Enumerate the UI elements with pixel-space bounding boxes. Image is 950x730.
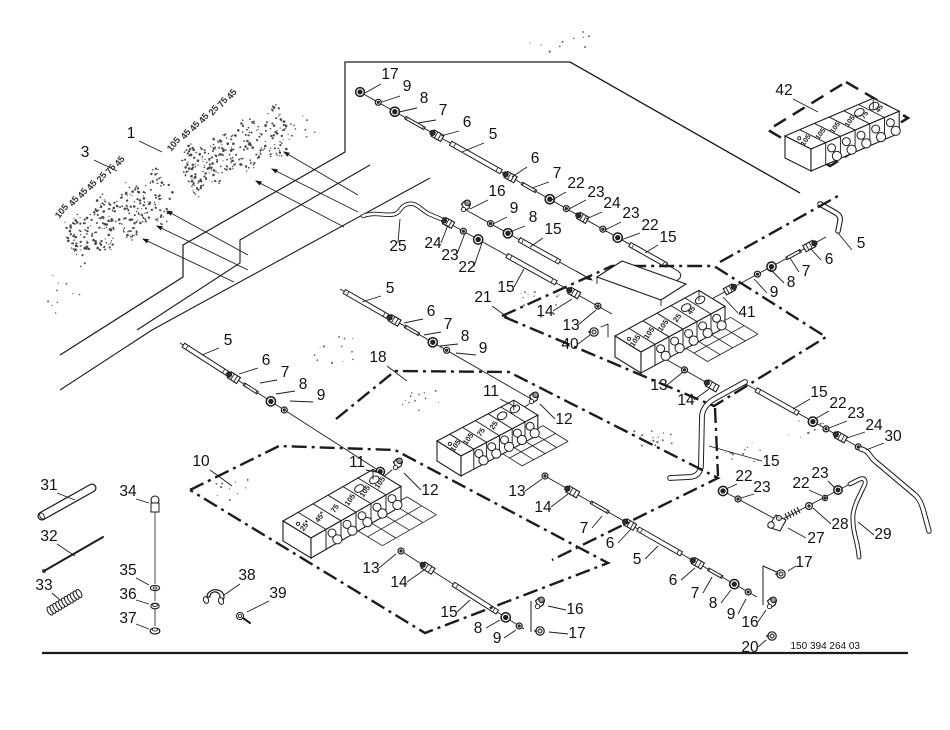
svg-text:24: 24: [603, 195, 621, 212]
svg-text:6: 6: [825, 251, 834, 268]
svg-text:7: 7: [691, 585, 700, 602]
svg-text:9: 9: [770, 284, 779, 301]
svg-text:8: 8: [299, 376, 308, 393]
svg-text:22: 22: [641, 217, 658, 234]
svg-text:42: 42: [775, 82, 792, 99]
svg-text:29: 29: [874, 526, 891, 543]
svg-text:5: 5: [633, 551, 642, 568]
svg-text:6: 6: [463, 114, 472, 131]
svg-text:14: 14: [390, 574, 408, 591]
svg-text:8: 8: [709, 595, 718, 612]
svg-text:11: 11: [349, 454, 365, 471]
svg-text:27: 27: [807, 530, 824, 547]
svg-text:3: 3: [81, 144, 90, 161]
svg-text:38: 38: [238, 567, 255, 584]
svg-text:9: 9: [727, 606, 736, 623]
svg-text:8: 8: [461, 328, 470, 345]
svg-text:15: 15: [762, 453, 779, 470]
svg-text:15: 15: [810, 384, 827, 401]
svg-text:17: 17: [381, 66, 398, 83]
svg-text:8: 8: [420, 90, 429, 107]
svg-text:23: 23: [847, 405, 864, 422]
svg-text:5: 5: [224, 332, 233, 349]
svg-text:40: 40: [561, 336, 579, 353]
svg-text:28: 28: [831, 516, 848, 533]
svg-text:41: 41: [738, 304, 755, 321]
svg-text:22: 22: [792, 475, 809, 492]
svg-text:39: 39: [269, 585, 286, 602]
svg-text:1: 1: [127, 125, 136, 142]
svg-text:32: 32: [40, 528, 57, 545]
svg-text:7: 7: [281, 364, 290, 381]
svg-text:13: 13: [650, 377, 667, 394]
svg-text:22: 22: [458, 259, 475, 276]
svg-text:16: 16: [488, 183, 505, 200]
svg-text:23: 23: [753, 479, 770, 496]
svg-text:37: 37: [119, 610, 136, 627]
svg-text:10: 10: [192, 453, 210, 470]
svg-text:18: 18: [369, 349, 386, 366]
svg-text:7: 7: [802, 263, 811, 280]
svg-text:7: 7: [553, 165, 562, 182]
svg-text:5: 5: [386, 280, 395, 297]
svg-text:14: 14: [534, 499, 552, 516]
svg-text:23: 23: [811, 465, 828, 482]
svg-text:23: 23: [587, 184, 604, 201]
svg-text:17: 17: [568, 625, 585, 642]
svg-text:8: 8: [529, 209, 538, 226]
svg-text:23: 23: [622, 205, 639, 222]
svg-text:24: 24: [865, 417, 883, 434]
svg-text:14: 14: [677, 392, 695, 409]
svg-text:15: 15: [497, 279, 514, 296]
svg-text:7: 7: [444, 316, 453, 333]
svg-text:9: 9: [510, 200, 519, 217]
svg-text:16: 16: [566, 601, 583, 618]
svg-text:33: 33: [35, 577, 52, 594]
svg-text:22: 22: [567, 175, 584, 192]
svg-text:5: 5: [857, 235, 866, 252]
svg-text:15: 15: [544, 221, 561, 238]
svg-text:8: 8: [474, 620, 483, 637]
svg-text:13: 13: [362, 560, 379, 577]
svg-text:9: 9: [493, 630, 502, 647]
svg-text:7: 7: [580, 520, 589, 537]
svg-text:22: 22: [829, 395, 846, 412]
svg-text:13: 13: [508, 483, 525, 500]
svg-text:12: 12: [555, 411, 572, 428]
svg-text:6: 6: [531, 150, 540, 167]
svg-text:14: 14: [536, 303, 554, 320]
svg-text:31: 31: [40, 477, 57, 494]
svg-text:8: 8: [787, 274, 796, 291]
svg-text:150 394 264 03: 150 394 264 03: [790, 641, 860, 652]
svg-text:15: 15: [659, 229, 676, 246]
svg-text:21: 21: [474, 289, 491, 306]
svg-text:24: 24: [424, 235, 442, 252]
svg-text:6: 6: [262, 352, 271, 369]
svg-text:6: 6: [669, 572, 678, 589]
svg-text:17: 17: [795, 554, 812, 571]
svg-text:7: 7: [439, 102, 448, 119]
svg-text:35: 35: [119, 562, 136, 579]
svg-text:6: 6: [606, 535, 615, 552]
svg-text:6: 6: [427, 303, 436, 320]
svg-text:5: 5: [489, 126, 498, 143]
svg-text:36: 36: [119, 586, 136, 603]
svg-text:9: 9: [479, 340, 488, 357]
svg-text:34: 34: [119, 483, 137, 500]
svg-text:23: 23: [441, 247, 458, 264]
svg-text:11: 11: [483, 383, 499, 400]
svg-text:15: 15: [440, 604, 457, 621]
svg-text:9: 9: [403, 78, 412, 95]
svg-text:12: 12: [421, 482, 438, 499]
svg-text:13: 13: [562, 317, 579, 334]
svg-text:22: 22: [735, 468, 752, 485]
svg-text:16: 16: [741, 614, 758, 631]
svg-text:30: 30: [884, 428, 902, 445]
svg-text:9: 9: [317, 387, 326, 404]
